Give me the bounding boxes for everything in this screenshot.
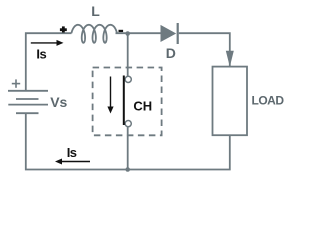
arrow into load xyxy=(226,51,234,67)
svg-text:CH: CH xyxy=(133,98,152,113)
wire xyxy=(26,113,230,169)
wire chopper bottom xyxy=(127,127,129,170)
svg-text:Is: Is xyxy=(36,47,46,62)
polarity + xyxy=(60,26,67,32)
svg-text:Vs: Vs xyxy=(50,94,67,110)
node bottom junction xyxy=(125,167,130,172)
battery Vs xyxy=(8,91,48,113)
bottom Is arrow xyxy=(55,159,90,165)
svg-text:D: D xyxy=(166,45,176,61)
diode D xyxy=(161,23,179,44)
load resistor xyxy=(213,67,248,136)
current arrow in chopper xyxy=(107,77,113,114)
node top junction xyxy=(125,31,130,36)
chopper dashed box xyxy=(93,68,162,136)
polarity - xyxy=(119,30,124,32)
switch CH xyxy=(123,76,132,127)
wire xyxy=(179,33,230,66)
top Is arrow xyxy=(31,40,64,46)
inductor L xyxy=(71,25,117,43)
battery plus sign xyxy=(12,79,20,87)
wire xyxy=(26,33,72,91)
svg-text:L: L xyxy=(91,3,100,19)
svg-text:LOAD: LOAD xyxy=(252,94,285,108)
wire xyxy=(116,32,161,34)
svg-text:Is: Is xyxy=(67,145,77,160)
wire chopper top xyxy=(127,33,129,76)
